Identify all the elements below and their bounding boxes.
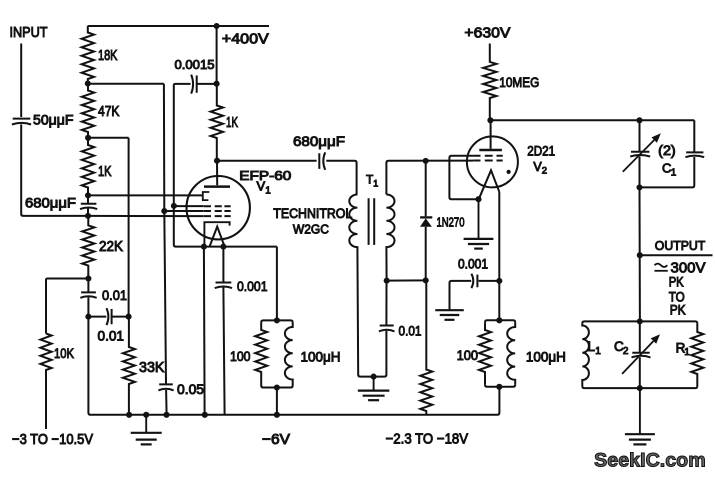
capacitor 0.01 horizontal bbox=[88, 308, 128, 325]
wire input to grid-divider node bbox=[21, 124, 88, 215]
tube V2 designator V2 bbox=[533, 160, 547, 177]
capacitor C2 designator bbox=[614, 339, 629, 357]
value label 0.01 upper bbox=[102, 287, 127, 303]
svg-text:INPUT: INPUT bbox=[10, 25, 48, 41]
wire tank V2 top bbox=[485, 320, 515, 322]
value label 22K bbox=[99, 239, 123, 255]
svg-text:0.001: 0.001 bbox=[237, 278, 268, 294]
capacitor 0.05 bbox=[158, 211, 173, 415]
svg-text:50μμF: 50μμF bbox=[33, 112, 74, 128]
capacitor 0.01 secondary bbox=[374, 281, 395, 377]
svg-text:OUTPUT: OUTPUT bbox=[655, 238, 706, 253]
junction secondary/0.01 bbox=[384, 278, 390, 284]
tube V2 filament bbox=[479, 170, 499, 199]
svg-text:−3 TO −10.5V: −3 TO −10.5V bbox=[12, 432, 93, 448]
value label 0.05 bbox=[177, 381, 204, 397]
value label 680uuF coupling bbox=[293, 133, 345, 149]
svg-text:47K: 47K bbox=[98, 104, 120, 120]
junction C1 top bbox=[636, 117, 642, 123]
value label 0.001 V1 bbox=[237, 278, 268, 294]
wire plate rail to C1 bbox=[490, 119, 694, 121]
value label 18K bbox=[98, 48, 118, 64]
svg-text:10MEG: 10MEG bbox=[499, 74, 539, 90]
wire 47K-1K node to compensation line bbox=[88, 137, 129, 139]
inductor 100uH V1 tank bbox=[285, 322, 293, 385]
watermark SeekIC.com bbox=[594, 449, 706, 471]
svg-text:−2.3 TO −18V: −2.3 TO −18V bbox=[386, 432, 469, 448]
capacitor C1 fixed companion bbox=[640, 120, 705, 187]
svg-text:0.0015: 0.0015 bbox=[175, 57, 215, 72]
wire primary bottom to ground bbox=[358, 375, 373, 377]
junction -6V bus bbox=[274, 412, 280, 418]
node label -3 TO -10.5V bbox=[12, 432, 93, 448]
wire tank V2 bottom bbox=[485, 385, 515, 387]
wire cathode to tank bbox=[276, 247, 278, 321]
svg-text:L: L bbox=[588, 339, 596, 354]
svg-text:33K: 33K bbox=[139, 360, 165, 376]
capacitor 680uuF coupling bbox=[319, 152, 356, 194]
resistor 1K plate load bbox=[211, 84, 223, 161]
inductor L1 bbox=[582, 323, 589, 386]
wire secondary node to diode line bbox=[387, 279, 426, 281]
node label -6V bbox=[262, 432, 290, 448]
svg-text:PK: PK bbox=[670, 302, 686, 317]
0.001 ground symbol bbox=[435, 309, 464, 320]
resistor 47K bbox=[82, 84, 94, 138]
node INPUT label bbox=[10, 25, 48, 41]
svg-text:TECHNITROL: TECHNITROL bbox=[273, 206, 352, 221]
svg-text:0.01: 0.01 bbox=[102, 287, 127, 303]
wire tank V1 bottom bbox=[261, 386, 293, 388]
value label 100uH V1 tank bbox=[301, 348, 341, 364]
value label 100uH V2 tank bbox=[526, 348, 566, 364]
wire V2 cathode down bbox=[498, 192, 500, 320]
svg-text:+400V: +400V bbox=[222, 32, 269, 48]
resistor bias -2.3 to -18 bbox=[420, 280, 432, 414]
svg-text:V: V bbox=[257, 179, 266, 194]
wire +400V rail bbox=[88, 25, 269, 27]
wire secondary top to V2 grid bbox=[386, 161, 473, 195]
svg-text:22K: 22K bbox=[99, 239, 123, 255]
tube V2 gas dot bbox=[507, 170, 511, 174]
resistor 18K bbox=[82, 26, 94, 84]
node +630V label bbox=[464, 26, 510, 42]
svg-text:2D21: 2D21 bbox=[527, 143, 555, 158]
junction 0.0015/1K bbox=[214, 81, 220, 87]
junction plate rail V2 bbox=[487, 117, 493, 123]
transformer T1 designator bbox=[366, 173, 378, 189]
tube V1 grid cap bracket bbox=[203, 192, 210, 200]
wire x88 down to ground bus / ground bus bbox=[88, 317, 499, 415]
resistor 100 V2 tank bbox=[479, 322, 491, 385]
wire screen feed vertical x164 bbox=[163, 84, 165, 211]
value label 33K bbox=[139, 360, 165, 376]
junction comp/33K node bbox=[126, 314, 132, 320]
value label 50uuF bbox=[33, 112, 74, 128]
svg-text:(2): (2) bbox=[658, 143, 676, 158]
svg-text:1: 1 bbox=[684, 347, 690, 358]
junction cathode-left/bus bbox=[202, 412, 208, 418]
resistor 22K bbox=[82, 216, 94, 279]
svg-text:100: 100 bbox=[457, 347, 479, 363]
transformer ground symbol bbox=[358, 377, 390, 401]
wire tank V1 to bus -6V bbox=[276, 388, 278, 415]
svg-text:680μμF: 680μμF bbox=[25, 195, 76, 211]
junction 18K/47K bbox=[85, 80, 91, 86]
transformer T1 label TECHNITROL bbox=[273, 206, 352, 221]
svg-text:1K: 1K bbox=[98, 164, 112, 180]
node label -2.3 TO -18V bbox=[386, 432, 469, 448]
junction ground stem/bus bbox=[143, 412, 149, 418]
diode 1N270 bbox=[420, 161, 432, 281]
resistor 33K bbox=[123, 317, 135, 415]
junction 47K/1K bbox=[85, 135, 91, 141]
svg-text:PK: PK bbox=[669, 275, 684, 290]
svg-text:0.01: 0.01 bbox=[399, 323, 422, 339]
value label 0.01 horizontal bbox=[98, 328, 125, 344]
resistor R1 bbox=[691, 323, 703, 386]
junction suppressor dot bbox=[171, 203, 177, 209]
tube V1 grid dashes row1 bbox=[204, 205, 231, 207]
inductor L1 designator bbox=[588, 339, 602, 357]
capacitor 0.0015 bbox=[174, 75, 217, 206]
junction 22K/10K/0.01 bbox=[85, 275, 91, 281]
wire suppressor row bbox=[174, 205, 204, 207]
junction output tank top bbox=[637, 318, 643, 324]
tube V1 cathode shield bbox=[204, 222, 229, 246]
resistor 10K bbox=[40, 334, 51, 430]
tube V1 designator V1 bbox=[257, 179, 272, 197]
junction V2 cathode/0.001 bbox=[496, 278, 502, 284]
node +400V label bbox=[222, 32, 269, 48]
svg-text:SeekIC.com: SeekIC.com bbox=[594, 449, 706, 471]
diode label 1N270 bbox=[437, 214, 465, 229]
svg-text:1N270: 1N270 bbox=[437, 214, 465, 229]
junction 680uuF/grid wire bbox=[85, 213, 91, 219]
node label TO bbox=[669, 289, 685, 304]
wire output tank bottom bbox=[582, 386, 697, 388]
ground bus ground symbol bbox=[131, 415, 162, 445]
transformer T1 core bbox=[369, 198, 375, 245]
node label OUTPUT bbox=[655, 238, 706, 253]
wire grid-1 cap feed bbox=[88, 194, 203, 196]
capacitor C1 variable bbox=[623, 120, 661, 187]
wire to 10K bbox=[46, 279, 88, 334]
junction 33K/bus bbox=[126, 412, 132, 418]
svg-text:100: 100 bbox=[230, 348, 251, 364]
value label 47K bbox=[98, 104, 120, 120]
junction cathode left bbox=[201, 244, 207, 250]
wire output tap bbox=[640, 254, 713, 256]
svg-text:1K: 1K bbox=[226, 115, 238, 131]
junction top rail / 1K feed bbox=[214, 23, 220, 29]
junction diode/grid bbox=[423, 158, 429, 164]
junction 0.05/bus bbox=[163, 412, 169, 418]
value label 0.0015 bbox=[175, 57, 215, 72]
wire tank V1 top bbox=[261, 320, 293, 322]
junction tank V1 bottom bbox=[274, 384, 280, 390]
wire compensation vertical x128.6 bbox=[128, 138, 130, 317]
wire input vertical bbox=[20, 44, 22, 118]
junction tank V1 top bbox=[274, 317, 280, 323]
svg-text:18K: 18K bbox=[98, 48, 118, 64]
resistor 1K divider bbox=[82, 138, 94, 196]
tube V2 envelope bbox=[467, 136, 518, 187]
tube V1 grid dashes row2 bbox=[204, 210, 231, 212]
svg-text:2: 2 bbox=[623, 346, 629, 357]
tube V2 grid dashes row1 bbox=[473, 155, 503, 157]
resistor 100 V1 tank bbox=[255, 322, 267, 385]
tube V1 designator EFP-60 bbox=[239, 168, 291, 183]
svg-text:100μH: 100μH bbox=[526, 348, 566, 364]
capacitor C2 variable bbox=[622, 321, 660, 388]
tube V2 plate bbox=[479, 120, 502, 150]
value label 0.001 V2 bbox=[458, 256, 488, 271]
value label (2) bbox=[658, 143, 676, 158]
value label 100 V1 tank bbox=[230, 348, 251, 364]
wire screen row bbox=[164, 210, 204, 212]
wire 1K-plate feed from rail bbox=[216, 26, 218, 84]
transformer T1 secondary bbox=[386, 195, 394, 281]
value label 1K divider bbox=[98, 164, 112, 180]
junction output tap bbox=[637, 252, 643, 258]
wire plate to coupling cap bbox=[217, 160, 317, 162]
inductor 100uH V2 tank bbox=[507, 322, 515, 385]
tube V1 envelope bbox=[187, 176, 250, 239]
junction screen dot bbox=[161, 208, 167, 214]
wire output tank top bbox=[582, 321, 697, 323]
svg-text:2: 2 bbox=[542, 166, 547, 177]
junction tank V2 bottom bbox=[496, 384, 502, 390]
node label approx 300V bbox=[655, 261, 706, 277]
svg-text:1: 1 bbox=[373, 179, 378, 189]
value label 1K plate bbox=[226, 115, 238, 131]
wire cathode bus V1 bbox=[174, 206, 277, 247]
junction diode/secondary bbox=[423, 277, 429, 283]
tube V1 grid dashes row3 bbox=[204, 215, 231, 217]
node label PK bbox=[669, 275, 684, 290]
value label 680uuF divider bbox=[25, 195, 76, 211]
tube V1 plate bbox=[204, 161, 230, 187]
svg-text:10K: 10K bbox=[54, 345, 75, 361]
tube V2 designator 2D21 bbox=[527, 143, 555, 158]
junction V2 cathode/shield bbox=[475, 196, 481, 202]
transformer T1 label W2GC bbox=[293, 221, 329, 236]
junction transformer ground bbox=[371, 374, 377, 380]
capacitor 50uuF bbox=[12, 119, 31, 125]
junction tank V2 top bbox=[496, 317, 502, 323]
tube V2 grid dashes row2 bbox=[473, 160, 503, 162]
value label 10K bbox=[54, 345, 75, 361]
svg-text:0.01: 0.01 bbox=[98, 328, 125, 344]
svg-text:0.001: 0.001 bbox=[458, 256, 488, 271]
svg-text:1: 1 bbox=[595, 346, 601, 357]
svg-text:EFP-60: EFP-60 bbox=[239, 168, 291, 183]
svg-text:W2GC: W2GC bbox=[293, 221, 329, 236]
wire 18K-47K node to screen line bbox=[88, 83, 164, 85]
V2 shield ground symbol bbox=[464, 199, 494, 248]
wire cathode left to bus bbox=[203, 247, 206, 415]
tube V2 shield bracket bbox=[449, 156, 478, 200]
capacitor 680uuF divider bbox=[80, 195, 97, 216]
output ground symbol bbox=[625, 388, 655, 444]
junction C1 bottom bbox=[636, 184, 642, 190]
wire control-grid g1 bbox=[88, 215, 204, 217]
capacitor C1 designator bbox=[662, 160, 677, 178]
value label 0.01 secondary bbox=[399, 323, 422, 339]
svg-text:+630V: +630V bbox=[464, 26, 510, 42]
junction plate/coupling node bbox=[214, 158, 220, 164]
junction 1K/680uuF/grid bbox=[85, 192, 91, 198]
value label 10MEG bbox=[499, 74, 539, 90]
capacitor 0.001 V2 bbox=[450, 274, 500, 310]
tube V1 filament bbox=[210, 227, 225, 247]
svg-text:680μμF: 680μμF bbox=[293, 133, 345, 149]
svg-text:1: 1 bbox=[265, 185, 271, 196]
resistor 10MEG bbox=[483, 44, 496, 121]
junction cathode right bbox=[220, 244, 226, 250]
node label PK 2 bbox=[670, 302, 686, 317]
svg-text:−6V: −6V bbox=[262, 432, 290, 448]
capacitor 0.001 V1 bbox=[215, 247, 232, 415]
transformer T1 primary bbox=[349, 195, 358, 376]
svg-text:100μH: 100μH bbox=[301, 348, 341, 364]
capacitor 0.01 upper bbox=[80, 279, 96, 317]
value label 100 V2 tank bbox=[457, 347, 479, 363]
wire C1 to output tank bbox=[639, 187, 641, 321]
resistor R1 designator bbox=[676, 340, 691, 358]
svg-text:1: 1 bbox=[671, 168, 677, 179]
svg-text:0.05: 0.05 bbox=[177, 381, 204, 397]
junction output tank bottom bbox=[637, 385, 643, 391]
junction 0.01/0.01 node bbox=[85, 314, 91, 320]
